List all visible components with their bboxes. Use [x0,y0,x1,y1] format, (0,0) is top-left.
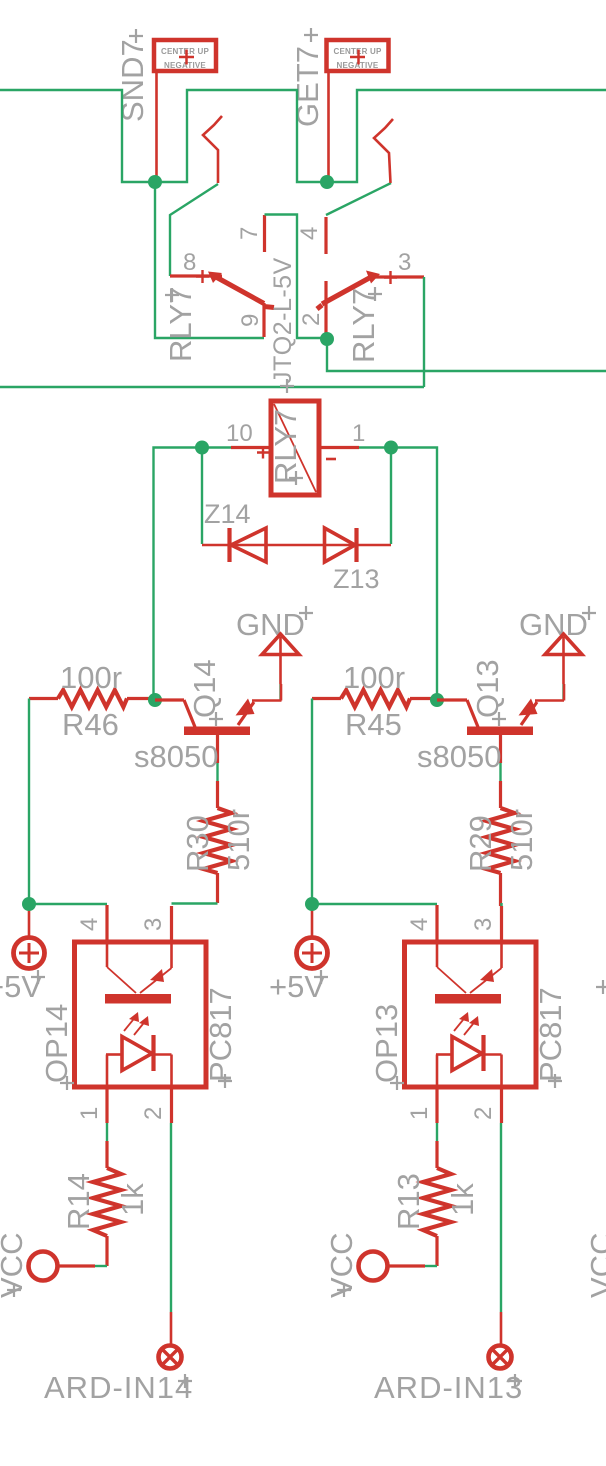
svg-text:RLY7: RLY7 [163,287,198,362]
svg-text:3: 3 [140,918,167,931]
resistor R46 100r [29,690,155,707]
junction SND7 [148,175,162,189]
pin 7 [263,215,266,252]
svg-text:OP13: OP13 [369,1004,404,1083]
svg-text:3: 3 [470,918,497,931]
label +5V third channel cross [596,980,606,994]
svg-text:SND7: SND7 [115,39,150,122]
label PC817 right [533,987,568,1088]
svg-text:GET7: GET7 [290,46,325,127]
svg-text:PC817: PC817 [203,987,238,1082]
label GET7 [290,28,325,127]
svg-text:VCC: VCC [584,1233,606,1298]
svg-text:Z14: Z14 [204,499,251,529]
svg-text:4: 4 [296,227,323,240]
wire pin 4 diagonal [326,183,391,215]
svg-text:VCC: VCC [324,1233,359,1298]
wire from SND7 node down to pin 9 [155,182,264,338]
label Q13 [470,659,506,726]
svg-text:R46: R46 [62,707,119,742]
svg-text:Q13: Q13 [470,659,505,718]
junction +5V left [22,897,36,911]
wire pin 3 down [423,277,425,387]
svg-text:+5V: +5V [0,969,42,1004]
pin 10 [231,446,271,449]
resistor R45 100r [312,690,437,707]
svg-text:8: 8 [183,249,196,276]
label ARD-IN14 [44,1370,193,1405]
label JTQ2-L-5V [269,257,297,393]
wire pin 2 down right [500,1123,502,1312]
wire R45 left down to +5V node right [311,699,313,905]
junction R46 collector [148,693,162,707]
svg-text:Z13: Z13 [333,564,380,594]
diode Z14 [230,528,267,562]
wire pin 1 to R14 [106,1123,108,1141]
wire pin 1 to R13 [436,1123,438,1141]
ground GND right [519,606,596,684]
wire base right [499,763,501,781]
label PC817 left [203,987,238,1088]
label RLY7 left contact [163,287,198,362]
svg-text:ARD-IN14: ARD-IN14 [44,1370,193,1405]
wire top bus [0,90,606,182]
junction node pins 7-2 [320,332,334,346]
wire R46 left down to +5V node [28,699,30,905]
pin 8 [170,270,222,283]
wire +5V to pin 4 [29,903,107,905]
svg-text:+5V: +5V [269,969,325,1004]
label OP14 [39,1004,74,1090]
svg-text:R13: R13 [391,1173,426,1230]
wire to pad [170,1312,173,1346]
relay contact RLY7 right throw [374,119,393,183]
pin 2 [324,281,327,339]
pin 9 [262,303,265,337]
svg-text:OP14: OP14 [39,1004,74,1083]
resistor R30 510r [204,781,232,903]
supply +5V right [269,906,328,1004]
svg-text:R45: R45 [345,707,402,742]
svg-text:1k: 1k [445,1183,480,1216]
svg-text:100r: 100r [343,660,405,695]
svg-text:100r: 100r [60,660,122,695]
svg-text:R29: R29 [463,815,498,872]
svg-text:3: 3 [398,249,411,276]
wire pin 7 to node [265,215,328,339]
wire lower bus [0,386,424,388]
wire R13 to VCC [425,1265,437,1267]
diode Z13 [325,528,357,562]
pad ARD-IN13 [489,1346,512,1369]
svg-text:PC817: PC817 [533,987,568,1082]
svg-text:NEGATIVE: NEGATIVE [164,61,206,70]
svg-text:RLY7: RLY7 [268,409,303,484]
svg-text:1k: 1k [115,1183,150,1216]
resistor R14 1k [93,1141,121,1266]
wire emitter to ground right [562,684,564,700]
pin 4 [324,217,327,254]
label OP13 [369,1004,404,1090]
svg-text:Q14: Q14 [187,659,222,718]
svg-text:2: 2 [470,1107,497,1120]
junction +5V right [305,897,319,911]
wire node to right bus [327,339,606,371]
svg-text:R30: R30 [180,815,215,872]
svg-text:4: 4 [406,918,433,931]
svg-text:510r: 510r [221,809,256,871]
svg-text:s8050: s8050 [134,739,218,774]
wire node to diode row left [201,448,203,545]
wire pin 2 down [170,1123,172,1312]
optocoupler OP14 PC817 [75,905,207,1123]
wire coil left [154,448,232,701]
supply VCC left [0,1233,95,1298]
supply VCC right [324,1233,425,1298]
transistor Q14 s8050 [155,684,282,763]
junction coil left [195,441,209,455]
wire base [216,763,218,781]
svg-text:2: 2 [140,1107,167,1120]
wire emitter to ground [279,684,281,700]
wire coil right [359,448,437,701]
svg-text:2: 2 [298,313,325,326]
wire NC throw to pin 8 [170,184,218,276]
connector GET7 [327,40,389,71]
svg-text:JTQ2-L-5V: JTQ2-L-5V [269,257,297,384]
wire GET7 drop [327,73,330,182]
contact arm right [317,271,380,310]
svg-text:ARD-IN13: ARD-IN13 [374,1370,523,1405]
wire +5V to pin 4 right [312,903,437,905]
relay contact RLY7 left throw [203,116,222,183]
label SND7 [115,29,150,122]
label RLY7 right contact [346,287,382,363]
resistor R29 510r [487,781,515,906]
junction R45 collector [430,693,444,707]
wire R30 to pin 3 [172,902,218,904]
svg-text:510r: 510r [504,809,539,871]
transistor Q13 s8050 [437,684,564,763]
pad ARD-IN14 [159,1346,182,1369]
supply +5V left [0,906,45,1004]
wire SND7 drop [155,73,158,182]
wire R14 to VCC [95,1265,107,1267]
connector SND7 [154,40,216,71]
svg-text:9: 9 [237,314,264,327]
relay coil RLY7 [257,401,336,495]
svg-text:GND: GND [236,607,305,642]
junction coil right [384,441,398,455]
contact arm left [208,272,274,308]
resistor R13 1k [423,1141,451,1266]
pin 1 [319,446,359,449]
svg-text:4: 4 [76,918,103,931]
svg-text:R14: R14 [61,1173,96,1230]
wire node to diode row right [390,448,392,545]
label Q14 [187,659,223,726]
label RLY7 coil [268,409,303,485]
junction GET7 [320,175,334,189]
svg-text:CENTER UP: CENTER UP [161,47,209,56]
ground GND left [236,606,313,684]
label ARD-IN13 [374,1370,523,1405]
svg-text:GND: GND [519,607,588,642]
svg-text:1: 1 [406,1107,433,1120]
wire R29 to pin 3 right [500,903,502,906]
optocoupler OP13 PC817 [405,905,537,1123]
svg-text:10: 10 [226,420,253,447]
svg-text:1: 1 [76,1107,103,1120]
svg-text:1: 1 [352,420,365,447]
wire diode row [202,544,391,547]
pin 3 [375,271,424,284]
wire to pad right [500,1312,503,1346]
svg-text:7: 7 [236,227,263,240]
svg-text:s8050: s8050 [417,739,501,774]
